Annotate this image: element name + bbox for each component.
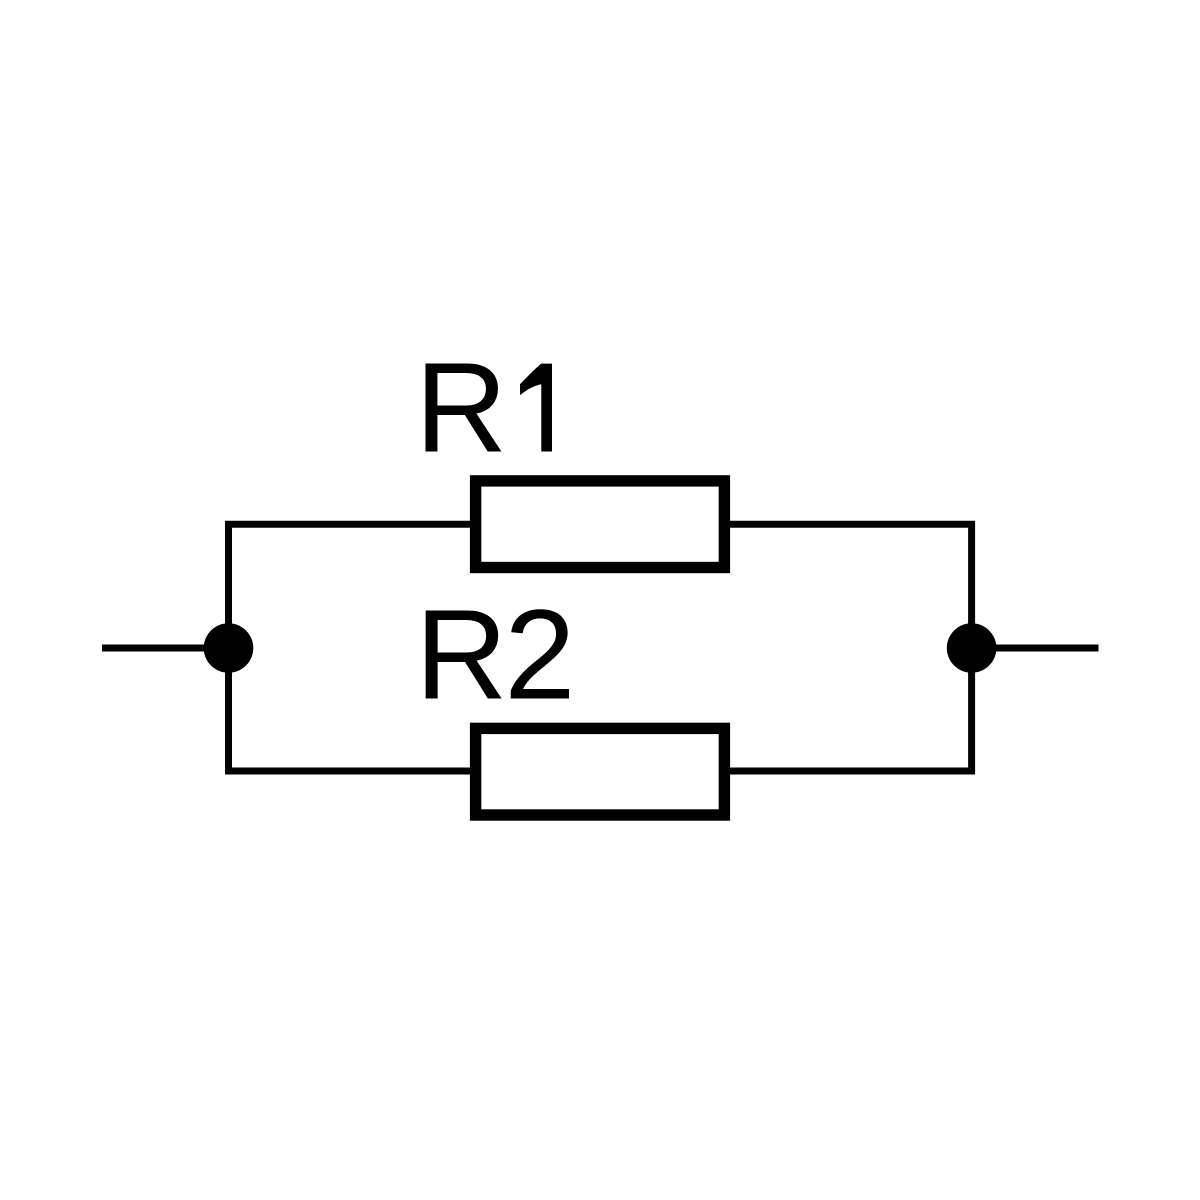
wire: left external lead (102, 645, 229, 652)
label R2 (426, 609, 569, 698)
node: right junction (947, 623, 997, 673)
wire: right branch (top rail, right vertical, bottom rail) (730, 524, 972, 771)
label R1 (425, 363, 552, 451)
node: left junction (204, 623, 254, 673)
wire: right external lead (972, 645, 1099, 652)
resistor R1 (476, 481, 725, 568)
wire: left branch (top rail, left vertical, bottom rail) (229, 524, 471, 771)
resistor R2 (476, 728, 725, 815)
